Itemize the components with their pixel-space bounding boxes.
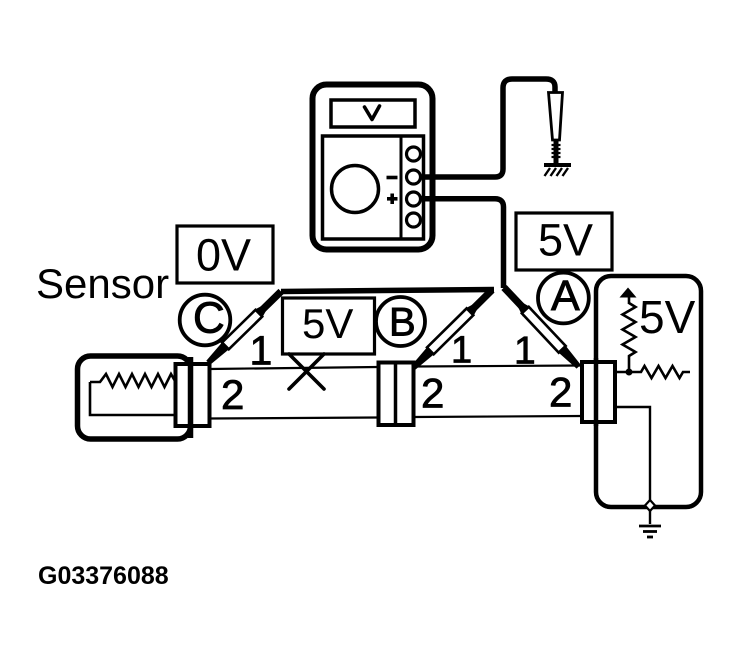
svg-text:A: A [551, 272, 580, 320]
svg-text:1: 1 [451, 330, 472, 372]
svg-text:5V: 5V [538, 215, 593, 266]
svg-text:2: 2 [549, 369, 572, 416]
svg-text:5V: 5V [302, 300, 353, 347]
svg-text:1: 1 [514, 330, 536, 373]
svg-text:5V: 5V [639, 291, 696, 343]
svg-text:B: B [389, 301, 416, 345]
svg-text:2: 2 [421, 370, 444, 417]
svg-text:Sensor: Sensor [36, 260, 169, 307]
svg-text:0V: 0V [196, 230, 251, 281]
svg-text:2: 2 [221, 371, 244, 418]
svg-text:G03376088: G03376088 [38, 562, 169, 590]
svg-text:C: C [193, 294, 225, 343]
svg-text:1: 1 [250, 328, 273, 374]
